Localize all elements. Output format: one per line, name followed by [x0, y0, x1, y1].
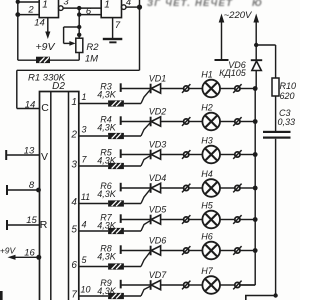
svg-text:VD6: VD6	[149, 236, 167, 246]
diode VD4	[151, 183, 161, 193]
resistor R7 4,3K body	[108, 228, 124, 234]
svg-text:КД105: КД105	[219, 68, 247, 78]
wire: diagonal jog row 5 to diode node	[141, 221, 150, 231]
junction row 2 on bus	[253, 119, 258, 124]
svg-text:4,3K: 4,3K	[97, 252, 117, 262]
junction row 4 on bus	[253, 186, 258, 191]
svg-text:3: 3	[71, 160, 77, 171]
op-amp gate D1.2 (logic element "1")	[101, 0, 121, 18]
svg-text:~220V: ~220V	[224, 10, 253, 21]
wire: D2 output lead row 5	[79, 230, 141, 232]
wire: diode to connector row 6	[161, 250, 183, 252]
svg-text:H5: H5	[201, 200, 213, 210]
svg-text:7: 7	[115, 20, 121, 31]
lamp H6	[202, 242, 220, 260]
+9V supply arrow at D1 pin 14	[45, 18, 50, 39]
svg-text:VD1: VD1	[149, 74, 167, 84]
IC D2 counter body	[40, 92, 79, 300]
connector contact right row 6	[233, 246, 241, 255]
wire: diagonal jog row 1 to diode node	[141, 90, 150, 104]
lamp H3	[202, 146, 220, 164]
capacitor C3 0,33	[263, 131, 291, 139]
lamp H1	[202, 80, 220, 98]
junction row 1 on bus	[253, 86, 258, 91]
connector contact left row 7	[182, 281, 190, 290]
connector contact right row 7	[233, 281, 241, 290]
wire: R10 to C3	[275, 96, 277, 132]
pin 13 lead with terminal	[6, 150, 39, 160]
svg-text:C: C	[41, 102, 49, 114]
wire: connector to lamp row 1	[189, 88, 202, 90]
svg-text:ЗГ ЧЁТ. НЕЧЁТ: ЗГ ЧЁТ. НЕЧЁТ	[147, 0, 233, 9]
R2 wiper arrow and strap	[64, 27, 80, 46]
wire: D2 output lead row 7	[79, 295, 141, 297]
svg-text:7: 7	[81, 155, 87, 165]
ground symbol (D1 pin 7)	[103, 18, 123, 44]
svg-text:14: 14	[34, 18, 45, 29]
svg-text:VD2: VD2	[149, 107, 167, 117]
wire: diode to connector row 4	[161, 187, 183, 189]
svg-text:6: 6	[86, 6, 92, 17]
wire: connector to bus row 4	[241, 187, 256, 189]
svg-text:2: 2	[27, 5, 34, 16]
svg-text:VD5: VD5	[149, 205, 168, 215]
svg-text:6: 6	[71, 260, 77, 271]
connector contact right row 1	[233, 84, 241, 93]
diode VD5	[151, 215, 161, 225]
resistor R8 4,3K body	[108, 263, 124, 269]
svg-text:H6: H6	[201, 231, 213, 241]
mains line right with up arrow	[253, 14, 259, 60]
svg-text:11: 11	[81, 192, 90, 202]
svg-text:H7: H7	[201, 266, 213, 276]
wire: connector to bus row 2	[241, 121, 256, 123]
terminal (connector pin) row 1	[120, 83, 122, 92]
connector contact left row 1	[182, 84, 190, 93]
svg-text:2: 2	[70, 130, 77, 141]
junction row 5 on bus	[253, 217, 258, 222]
svg-text:H4: H4	[201, 169, 213, 179]
wire: diagonal jog row 3 to diode node	[141, 156, 150, 166]
resistor R4 4,3K body	[108, 133, 124, 139]
junction row 3 on bus	[253, 152, 258, 157]
wire: terminal to diode VD5	[121, 219, 151, 221]
svg-text:R10: R10	[280, 81, 297, 91]
connector contact right row 2	[233, 117, 241, 126]
diode VD3	[151, 150, 161, 160]
resistor R3 4,3K body	[108, 100, 124, 106]
terminal (connector pin) row 3	[120, 149, 122, 158]
page edge artifact bottom-left	[0, 291, 3, 300]
connector contact right row 4	[233, 184, 241, 193]
wire: terminal to diode VD6	[121, 250, 151, 252]
wire: lamp to connector row 2	[220, 121, 234, 123]
svg-text:10: 10	[80, 285, 90, 295]
svg-text:+9V: +9V	[36, 41, 56, 53]
wire: connector to lamp row 4	[189, 187, 202, 189]
terminal (connector pin) row 5	[120, 214, 122, 223]
lamp H5	[202, 211, 220, 229]
connector contact left row 3	[182, 150, 190, 159]
resistor R6 4,3K body	[108, 200, 124, 206]
wire: D2 output lead row 2	[79, 135, 141, 137]
wire: diode to connector row 3	[161, 154, 183, 156]
diode VD1	[151, 84, 161, 94]
wire: D2 output lead row 4	[79, 203, 141, 205]
wire: gate D1.2 lower input lead	[77, 12, 101, 16]
svg-text:4,3K: 4,3K	[97, 221, 117, 231]
wire: connector to bus row 3	[241, 154, 256, 156]
svg-text:1: 1	[42, 0, 48, 10]
gate D1.1 output inversion bubble	[59, 6, 64, 11]
potentiometer R2 1M body	[76, 38, 83, 52]
wire: diode to connector row 5	[161, 219, 183, 221]
svg-text:14: 14	[25, 100, 36, 111]
wire: D2 output lead row 3	[79, 165, 141, 167]
wire: connector to lamp row 3	[189, 154, 202, 156]
svg-text:H3: H3	[201, 135, 213, 145]
wire: diode to connector row 7	[161, 284, 183, 286]
svg-text:Ю: Ю	[252, 0, 262, 9]
diode VD6 KD105 (mains)	[251, 60, 262, 70]
svg-text:620: 620	[280, 91, 295, 101]
svg-text:4: 4	[71, 197, 77, 208]
svg-text:4,3K: 4,3K	[97, 189, 117, 199]
connector contact left row 5	[182, 215, 190, 224]
svg-text:R2: R2	[86, 42, 99, 53]
diode VD6	[151, 246, 161, 256]
lamp H2	[202, 113, 220, 131]
svg-text:+9V: +9V	[0, 246, 17, 256]
svg-text:5: 5	[71, 225, 77, 236]
svg-text:VD7: VD7	[149, 270, 168, 280]
terminal (connector pin) row 6	[120, 245, 122, 254]
wire: vertical from output node up to cropped edge and down to D2 clock line	[139, 0, 141, 70]
svg-text:16: 16	[24, 248, 35, 259]
wire: diagonal jog row 6 to diode node	[141, 252, 150, 267]
wire: connector to lamp row 7	[189, 284, 202, 286]
svg-text:5: 5	[81, 255, 87, 265]
svg-text:H2: H2	[201, 102, 213, 112]
svg-text:VD4: VD4	[149, 173, 167, 183]
wire: lamp to connector row 3	[220, 154, 234, 156]
svg-text:4: 4	[81, 220, 86, 230]
resistor R10 620 body	[272, 78, 279, 96]
wire: connector to lamp row 5	[189, 219, 202, 221]
connector contact left row 6	[182, 246, 190, 255]
svg-text:1M: 1M	[85, 53, 98, 64]
wire: terminal to diode VD3	[121, 154, 151, 156]
wire: lamp to connector row 7	[220, 284, 234, 286]
wire: terminal to diode VD4	[121, 187, 151, 189]
svg-text:1: 1	[104, 0, 110, 10]
wire: D2 output lead row 6	[79, 266, 141, 268]
pin 8 lead with terminal	[7, 185, 41, 195]
wire: lamp to connector row 4	[220, 187, 234, 189]
wire: lamp to connector row 5	[220, 219, 234, 221]
wire: gate D1.1 output pin 3 to gate D1.2 inputs	[63, 6, 101, 10]
wire: diagonal jog row 4 to diode node	[141, 189, 150, 203]
wire: connector to bus row 6	[241, 250, 256, 252]
svg-text:VD3: VD3	[149, 140, 167, 150]
svg-text:7: 7	[71, 290, 77, 300]
svg-text:1: 1	[81, 92, 86, 102]
op-amp gate D1.1 (logic element "1")	[39, 0, 58, 18]
resistor R1 330K body	[36, 57, 50, 63]
bottom box (cropped stage)	[246, 296, 276, 300]
wire: lamp to connector row 6	[220, 250, 234, 252]
svg-text:4,3K: 4,3K	[97, 286, 117, 296]
svg-text:13: 13	[24, 146, 35, 157]
svg-text:3: 3	[63, 0, 69, 8]
connector contact left row 4	[182, 184, 190, 193]
diode VD7	[151, 280, 161, 290]
cropped print text artifact top	[147, 0, 262, 9]
lamp H4	[202, 179, 220, 197]
gate D1.2 output inversion bubble	[121, 5, 126, 10]
wire: diagonal jog row 7 to diode node	[141, 286, 150, 296]
wire: terminal to diode VD1	[121, 88, 151, 90]
wire: connector to bus row 5	[241, 219, 256, 221]
terminal (connector pin) row 2	[120, 116, 122, 125]
svg-text:3: 3	[81, 125, 86, 135]
wire: C3 down to bottom node	[273, 139, 277, 298]
pin 15 lead with terminal	[7, 220, 40, 230]
wire: gate D1.2 output pin 4 to vertical feedback	[126, 5, 142, 10]
wire: terminal to diode VD2	[121, 121, 151, 123]
wire: branch to R10 chain	[256, 45, 275, 78]
wire: connector to bus row 1	[241, 88, 256, 90]
wire: diagonal jog row 2 to diode node	[141, 123, 150, 136]
connector contact right row 5	[233, 215, 241, 224]
wire: clock line pin 4 output to D2 pin 14	[17, 70, 140, 108]
connector contact right row 3	[233, 150, 241, 159]
resistor R5 4,3K body	[108, 163, 124, 169]
wire: R2 bottom lead	[78, 53, 80, 61]
terminal (connector pin) row 7	[120, 280, 122, 289]
svg-text:4,3K: 4,3K	[97, 123, 117, 133]
svg-text:R: R	[40, 219, 48, 231]
junction row 6 on bus	[253, 248, 258, 253]
wire: lamp common bus vertical	[241, 71, 257, 286]
resistor R9 4,3K body	[108, 293, 124, 299]
svg-text:H1: H1	[201, 69, 213, 79]
wire: connector to lamp row 2	[189, 121, 202, 123]
svg-text:V: V	[41, 151, 48, 163]
svg-text:15: 15	[26, 215, 37, 226]
svg-text:1: 1	[71, 97, 77, 108]
connector contact left row 2	[182, 117, 190, 126]
wire: D2 output lead row 1	[79, 103, 141, 105]
terminal (connector pin) row 4	[120, 183, 122, 192]
wire: lamp to connector row 1	[220, 88, 234, 90]
svg-text:0,33: 0,33	[278, 117, 296, 127]
svg-text:4,3K: 4,3K	[97, 156, 117, 166]
wire: terminal to diode VD7	[121, 284, 151, 286]
wire: gate D1.1 input leads pins 1,2	[18, 2, 39, 15]
svg-text:4,3K: 4,3K	[97, 90, 117, 100]
lamp H7	[202, 276, 220, 294]
wire: feedback vertical left (gate D1.1 inputs)	[15, 0, 20, 60]
wire: diode to connector row 1	[161, 88, 183, 90]
mains terminal left with up arrow	[215, 14, 229, 61]
wire: R2 top lead from gate output node	[77, 8, 81, 38]
wire: connector to lamp row 6	[189, 250, 202, 252]
diode VD2	[151, 117, 161, 127]
pin 16 lead with +9V arrow	[8, 255, 42, 260]
wire: R1 horizontal (R2 bottom to feedback vertical)	[18, 59, 79, 61]
wire: connector to bus row 7	[241, 284, 256, 286]
svg-text:8: 8	[29, 180, 35, 191]
wire: diode to connector row 2	[161, 121, 183, 123]
svg-text:D2: D2	[52, 81, 65, 92]
